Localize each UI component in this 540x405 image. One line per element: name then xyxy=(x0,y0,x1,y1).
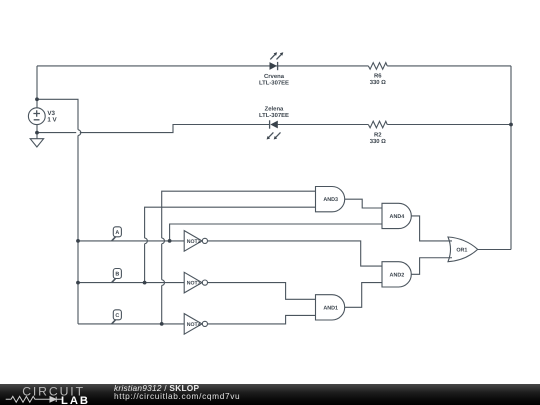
CircuitLab logo xyxy=(0,384,100,405)
wire lower rail LED to R2 xyxy=(278,124,369,126)
resistor R2 xyxy=(368,121,387,128)
svg-text:1 V: 1 V xyxy=(47,117,57,124)
node flag B xyxy=(112,269,122,283)
wire hop over lower rail xyxy=(78,130,81,136)
wire AND1 output to AND2 lower input xyxy=(345,283,382,308)
voltage source V3 xyxy=(28,108,45,125)
wire top rail right segment (R6 to right rail) xyxy=(387,65,511,67)
svg-text:NOT4: NOT4 xyxy=(187,322,201,328)
wire lower rail R2 to right rail xyxy=(387,124,511,126)
svg-text:OR1: OR1 xyxy=(456,247,467,253)
junction node row B left xyxy=(76,281,80,285)
wire lower rail from V3 to step xyxy=(37,125,270,133)
svg-text:Zelena: Zelena xyxy=(265,106,284,113)
junction node row C tap xyxy=(160,322,164,326)
svg-text:AND2: AND2 xyxy=(390,272,405,278)
or-gate OR1 xyxy=(448,237,478,262)
wire V3 minus stub xyxy=(36,125,38,139)
svg-text:NOT2: NOT2 xyxy=(187,239,201,245)
wire right vertical rail xyxy=(510,66,512,250)
svg-text:Crvena: Crvena xyxy=(264,73,285,80)
svg-text:AND1: AND1 xyxy=(323,305,338,311)
wire row C xyxy=(78,323,184,325)
wire input column down to row C xyxy=(77,135,79,324)
wire A to AND4 lower input xyxy=(170,224,382,241)
inverter NOT4 xyxy=(184,314,207,335)
svg-text:R2: R2 xyxy=(374,131,382,138)
footer credit text xyxy=(114,384,240,400)
node flag C xyxy=(112,310,122,324)
svg-text:NOT3: NOT3 xyxy=(187,281,201,287)
wire top rail left segment (V+ to R6) xyxy=(37,65,368,67)
wire row B xyxy=(78,282,184,284)
and-gate AND4 xyxy=(382,203,411,228)
junction node row B tap xyxy=(143,281,147,285)
svg-text:AND3: AND3 xyxy=(323,197,338,203)
wire AND4 output to OR1 upper input xyxy=(411,216,452,241)
resistor R6 xyxy=(368,63,387,70)
svg-text:B: B xyxy=(115,272,119,278)
svg-text:C: C xyxy=(115,313,119,319)
svg-text:A: A xyxy=(115,230,119,236)
svg-text:AND4: AND4 xyxy=(390,214,405,220)
wire B to AND3 lower input (vertical with hop over row A) xyxy=(145,207,316,282)
wire NOT2 output to AND2 upper input xyxy=(208,241,382,266)
node flag A xyxy=(112,227,122,241)
svg-text:R6: R6 xyxy=(374,73,382,80)
junction node right rail xyxy=(509,123,513,127)
svg-text:330 Ω: 330 Ω xyxy=(370,79,386,86)
LED Zelena (cathode left, pointing left) xyxy=(267,120,281,139)
wire AND3 output to AND4 upper input xyxy=(345,199,382,208)
wire row A xyxy=(78,240,184,242)
wire OR1 output to right rail xyxy=(478,249,511,251)
svg-text:330 Ω: 330 Ω xyxy=(370,138,386,145)
junction node row A tap xyxy=(168,239,172,243)
and-gate AND2 xyxy=(382,262,411,287)
logo resistor-diode squiggle xyxy=(6,396,63,402)
wire branch V+ to input column xyxy=(37,99,78,130)
LED Crvena (anode left, pointing right) xyxy=(270,52,284,70)
svg-text:LTL-307EE: LTL-307EE xyxy=(259,112,289,119)
wire left vertical from top rail to V3 xyxy=(36,66,38,108)
junction node row A left xyxy=(76,239,80,243)
inverter NOT3 xyxy=(184,272,207,293)
svg-text:LAB: LAB xyxy=(61,395,90,405)
junction node V- bottom xyxy=(35,131,39,135)
and-gate AND3 xyxy=(316,187,345,212)
wire C to AND3 upper input (vertical with hops over rows A and B) xyxy=(162,191,316,324)
footer bar xyxy=(0,384,540,405)
inverter NOT2 xyxy=(184,231,207,252)
wire AND2 output to OR1 lower input xyxy=(411,258,452,275)
junction node V+ top xyxy=(35,97,39,101)
wire NOT3 output to AND1 upper input xyxy=(208,283,316,300)
wire NOT4 output to AND1 lower input xyxy=(208,315,316,324)
svg-text:LTL-307EE: LTL-307EE xyxy=(259,79,289,86)
ground xyxy=(30,139,43,147)
and-gate AND1 xyxy=(316,295,345,320)
